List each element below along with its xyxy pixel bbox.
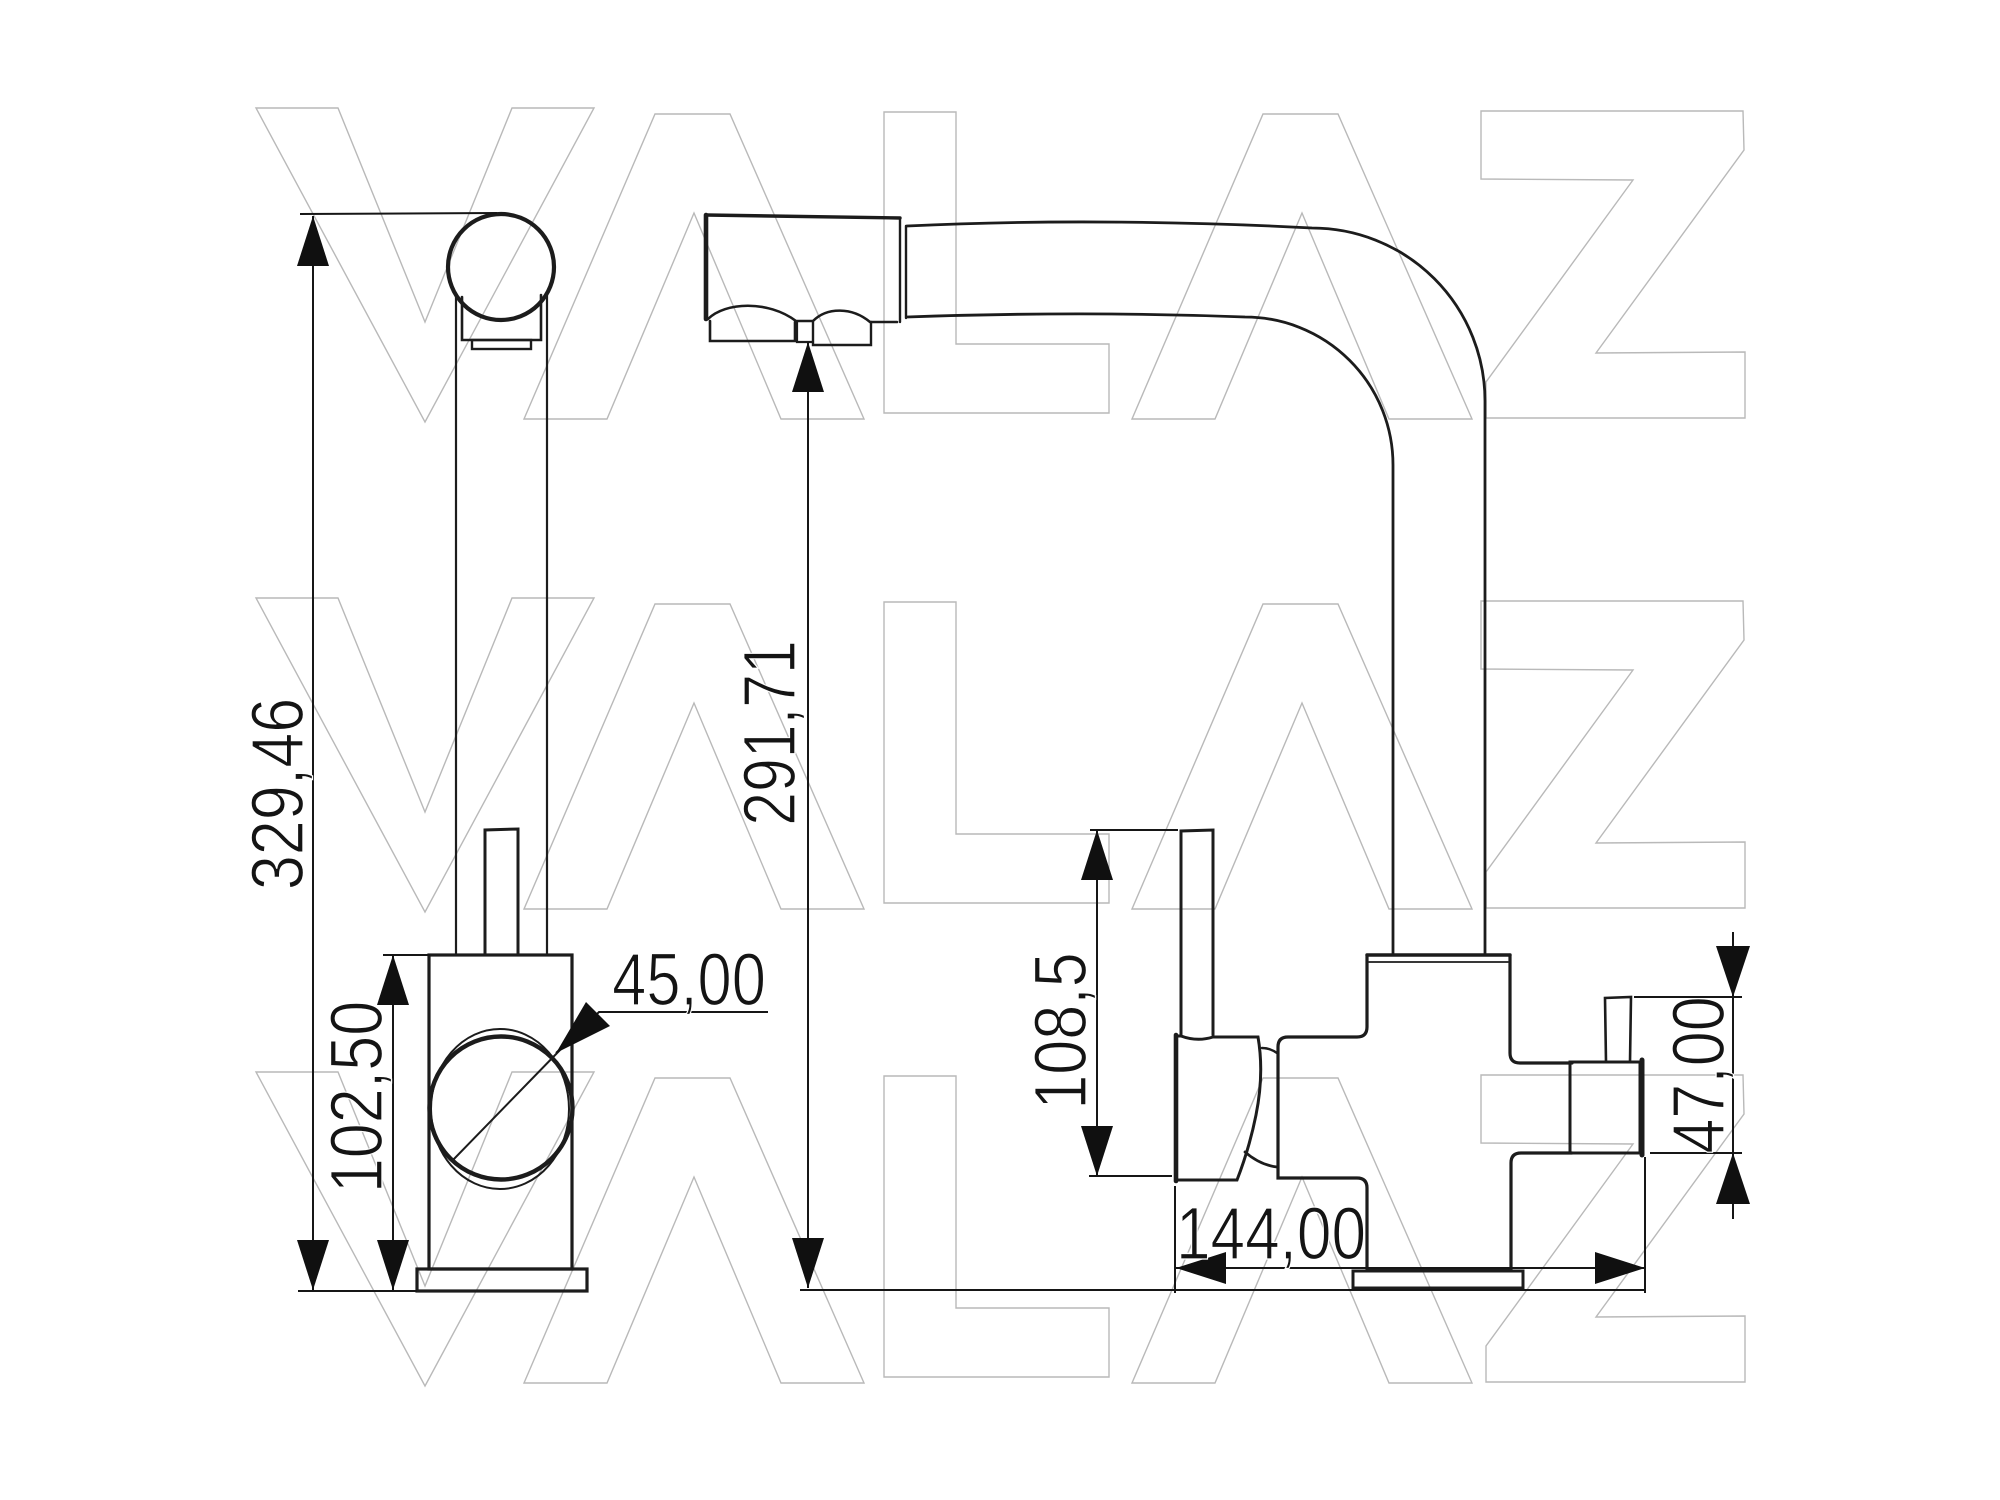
dim line 144,00 [1175, 1267, 1645, 1269]
arrow 47,00 top [1716, 946, 1750, 997]
svg-text:47,00: 47,00 [1657, 996, 1740, 1153]
front riser tube left line [455, 296, 457, 955]
dim line 108,5 [1096, 830, 1098, 1176]
watermark letter V [256, 108, 594, 422]
cartridge joint bottom arc [1245, 1152, 1277, 1167]
arrow 291,71 bottom [792, 1238, 824, 1288]
head connector ring [905, 226, 907, 318]
arrow 329,46 bottom [297, 1240, 329, 1290]
front base plate [417, 1269, 587, 1291]
arrow 144,00 left [1176, 1252, 1226, 1284]
front spout bracket plate [472, 340, 531, 349]
side head top edge [706, 215, 900, 218]
side head right edge [899, 218, 901, 322]
arrow 102,50 bottom [377, 1240, 409, 1290]
ext line 102,50 [383, 954, 430, 956]
dim line 329,46 [312, 216, 314, 1290]
ext line top 329,46 [300, 213, 497, 214]
side head outline [704, 215, 709, 319]
front body ring outer circle [430, 1037, 573, 1180]
side head aerator wavy bottom [708, 306, 897, 322]
side handle escutcheon [1176, 1036, 1261, 1180]
ext right 144,00 [1644, 1157, 1646, 1293]
side handle lever [1181, 830, 1213, 1035]
arrow leader 45,00 [556, 1002, 610, 1053]
arrow 102,50 top [377, 955, 409, 1005]
dim line 291,71 [807, 342, 809, 1288]
watermark letter A2 [1132, 114, 1472, 419]
arrow 144,00 right [1595, 1252, 1645, 1284]
ext bottom 108,5 [1089, 1175, 1172, 1177]
svg-text:45,00: 45,00 [612, 939, 766, 1022]
side base plate [1353, 1271, 1523, 1288]
svg-text:108,5: 108,5 [1019, 952, 1102, 1109]
front body ring inner circle [431, 1029, 569, 1189]
escutcheon bold left edge [1174, 1035, 1179, 1181]
aerator block left [710, 321, 795, 341]
svg-text:144,00: 144,00 [1176, 1193, 1366, 1275]
tube outer line [907, 222, 1485, 955]
front body [429, 955, 572, 1269]
arrow 47,00 bottom [1716, 1153, 1750, 1204]
front spout bracket [462, 295, 541, 340]
ext bottom 47,00 [1650, 1152, 1742, 1154]
dim line 102,50 [392, 955, 394, 1290]
watermark letter Z [1481, 111, 1745, 418]
leader 45,00 [556, 1012, 768, 1053]
aerator block right [813, 322, 871, 345]
outlet box bold right edge [1640, 1060, 1645, 1155]
arrow 291,71 top [792, 342, 824, 392]
dim line 47,00 [1732, 932, 1734, 1219]
svg-text:329,46: 329,46 [236, 698, 319, 890]
arrow 108,5 bottom [1081, 1126, 1113, 1176]
ground baseline right [800, 1289, 1645, 1291]
side body top edge [1367, 953, 1510, 956]
svg-text:102,50: 102,50 [315, 1001, 398, 1193]
watermark VALAZ rows [256, 108, 1745, 1386]
arrow 329,46 top [297, 216, 329, 266]
watermark letter L [884, 112, 1109, 413]
arrow 108,5 top [1081, 830, 1113, 880]
outlet knob [1605, 997, 1631, 1062]
tube inner line [907, 314, 1393, 955]
ext top 108,5 [1090, 829, 1178, 831]
front handle lever [485, 829, 518, 955]
ext top 47,00 [1634, 996, 1742, 998]
watermark letter A [524, 114, 864, 419]
ext left 144,00 [1174, 1186, 1176, 1293]
front riser tube right line [546, 294, 548, 955]
svg-text:291,71: 291,71 [729, 640, 811, 826]
cartridge joint top arc [1262, 1048, 1277, 1053]
diameter line 45 [452, 1049, 561, 1161]
aerator notch [797, 322, 813, 342]
side body outline [1278, 955, 1572, 1269]
side body top inner line [1369, 961, 1508, 963]
ground baseline left [298, 1290, 417, 1292]
front spout head circle [448, 214, 554, 320]
outlet box [1570, 1062, 1640, 1153]
